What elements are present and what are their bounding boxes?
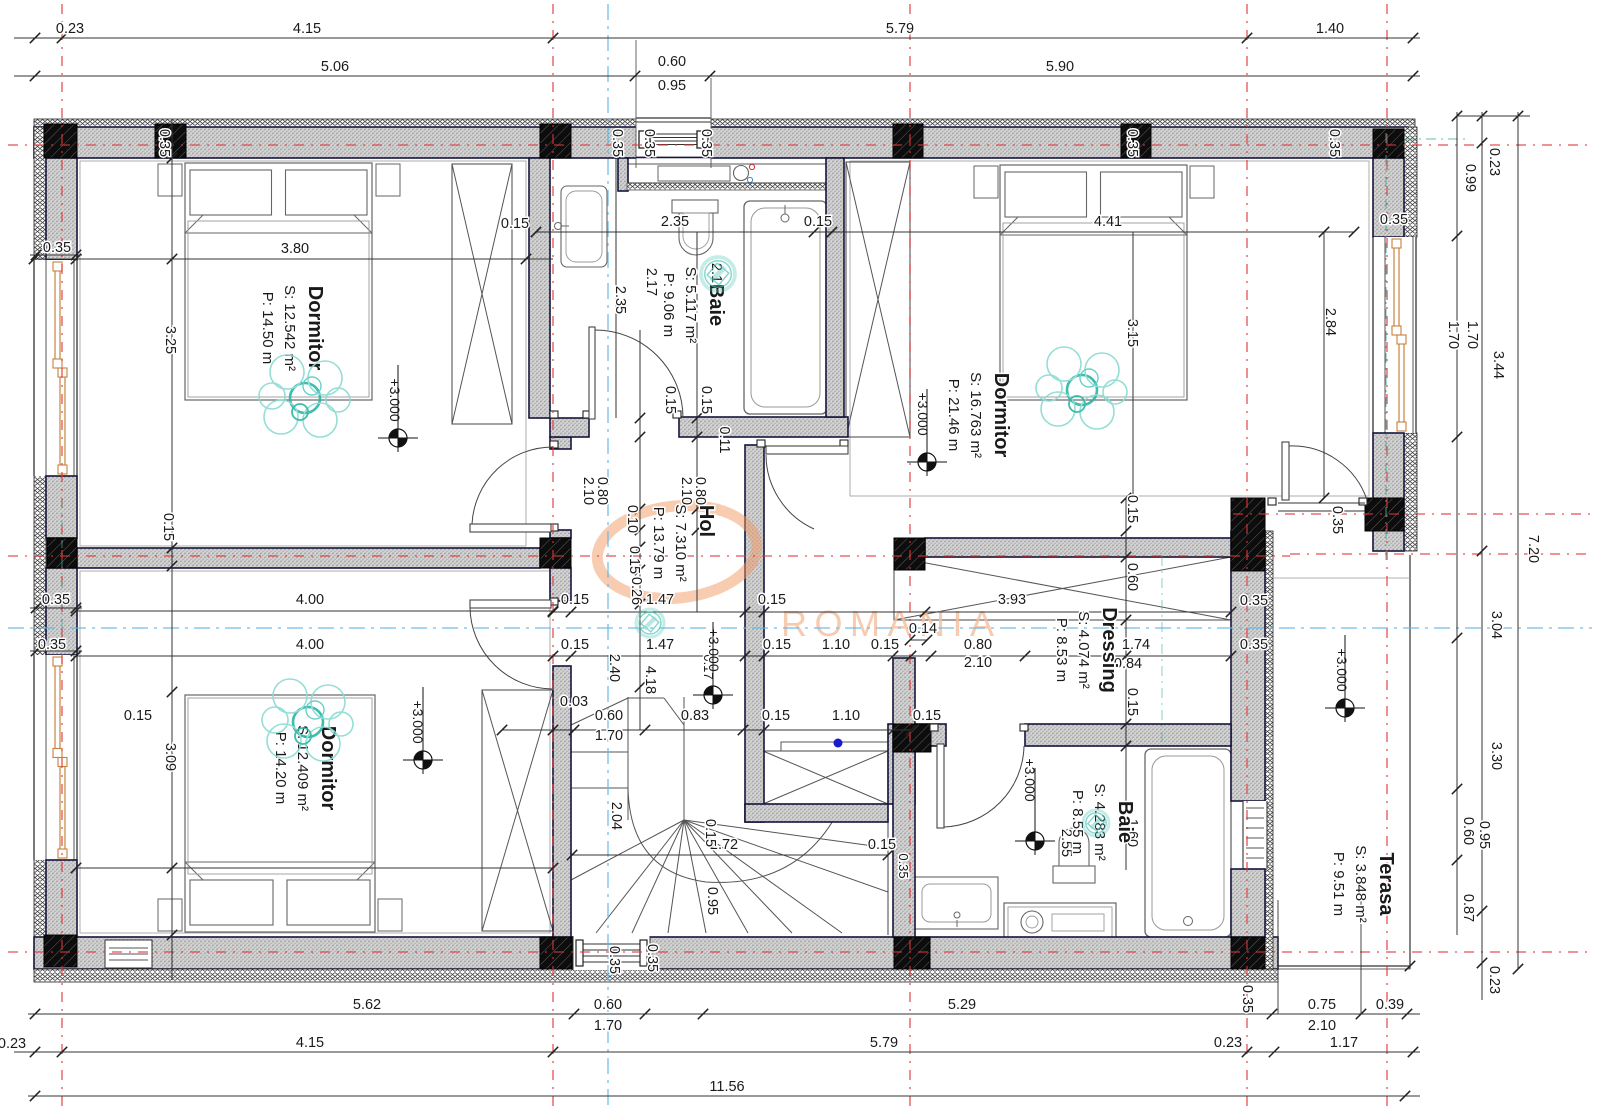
svg-text:5.79: 5.79 bbox=[870, 1035, 898, 1051]
svg-text:0.99: 0.99 bbox=[1462, 164, 1478, 192]
svg-text:5.90: 5.90 bbox=[1046, 59, 1074, 75]
svg-text:S: 4.074 m²: S: 4.074 m² bbox=[1075, 611, 1092, 689]
svg-text:0.35: 0.35 bbox=[644, 944, 660, 972]
svg-text:Baie: Baie bbox=[1114, 801, 1136, 843]
svg-text:0.15: 0.15 bbox=[913, 708, 941, 724]
svg-text:S: 7.310 m²: S: 7.310 m² bbox=[672, 504, 689, 582]
svg-text:0.23: 0.23 bbox=[56, 21, 84, 37]
svg-text:0.60: 0.60 bbox=[1124, 563, 1140, 591]
svg-text:0.39: 0.39 bbox=[1376, 997, 1404, 1013]
svg-text:Dressing: Dressing bbox=[1098, 607, 1120, 693]
svg-text:0.60: 0.60 bbox=[594, 997, 622, 1013]
svg-text:2.10: 2.10 bbox=[580, 477, 596, 505]
svg-text:0.95: 0.95 bbox=[704, 887, 720, 915]
svg-text:0.60: 0.60 bbox=[658, 54, 686, 70]
svg-text:0.35: 0.35 bbox=[609, 129, 625, 157]
svg-text:5.29: 5.29 bbox=[948, 997, 976, 1013]
svg-text:1.70: 1.70 bbox=[595, 728, 623, 744]
svg-text:0.10: 0.10 bbox=[624, 505, 640, 533]
svg-text:0.35: 0.35 bbox=[1240, 637, 1268, 653]
svg-text:P: 21.46 m: P: 21.46 m bbox=[945, 379, 962, 452]
svg-text:0.75: 0.75 bbox=[1308, 997, 1336, 1013]
svg-text:S: 16.763 m²: S: 16.763 m² bbox=[967, 372, 984, 458]
svg-text:P: 14.50 m: P: 14.50 m bbox=[259, 292, 276, 365]
svg-text:0.14: 0.14 bbox=[909, 621, 937, 637]
svg-text:0.80: 0.80 bbox=[964, 637, 992, 653]
svg-text:+3.000: +3.000 bbox=[410, 700, 426, 743]
svg-text:Dormitor: Dormitor bbox=[304, 286, 326, 371]
svg-text:P: 14.20 m: P: 14.20 m bbox=[272, 732, 289, 805]
svg-text:S: 5.117 m²: S: 5.117 m² bbox=[682, 267, 699, 343]
svg-text:4.18: 4.18 bbox=[642, 666, 658, 694]
svg-text:P: 9.06 m: P: 9.06 m bbox=[660, 273, 677, 337]
svg-text:2.35: 2.35 bbox=[612, 286, 628, 314]
svg-text:0.35: 0.35 bbox=[1239, 985, 1255, 1013]
svg-text:0.35: 0.35 bbox=[1326, 129, 1342, 157]
svg-text:0.23: 0.23 bbox=[1486, 148, 1502, 176]
svg-text:S: 3.848 m²: S: 3.848 m² bbox=[1352, 845, 1369, 923]
svg-text:0.15: 0.15 bbox=[124, 708, 152, 724]
svg-text:0.35: 0.35 bbox=[698, 129, 714, 157]
svg-text:0.60: 0.60 bbox=[1460, 817, 1476, 845]
svg-text:3.93: 3.93 bbox=[998, 592, 1026, 608]
svg-text:5.06: 5.06 bbox=[321, 59, 349, 75]
svg-text:Hol: Hol bbox=[695, 505, 717, 537]
svg-text:1.10: 1.10 bbox=[832, 708, 860, 724]
svg-text:0.35: 0.35 bbox=[641, 129, 657, 157]
svg-text:0.35: 0.35 bbox=[606, 946, 622, 974]
svg-text:0.15: 0.15 bbox=[1124, 495, 1140, 523]
svg-text:+3.000: +3.000 bbox=[706, 628, 722, 671]
svg-text:2.10: 2.10 bbox=[964, 655, 992, 671]
svg-text:0.03: 0.03 bbox=[560, 694, 588, 710]
svg-text:0.35: 0.35 bbox=[1329, 506, 1345, 534]
svg-text:0.35: 0.35 bbox=[1380, 212, 1408, 228]
svg-text:0.95: 0.95 bbox=[658, 78, 686, 94]
svg-text:0.35: 0.35 bbox=[1240, 593, 1268, 609]
svg-text:1.47: 1.47 bbox=[646, 592, 674, 608]
svg-text:1.40: 1.40 bbox=[1316, 21, 1344, 37]
svg-text:3.25: 3.25 bbox=[162, 326, 178, 354]
svg-text:0.11: 0.11 bbox=[716, 426, 732, 453]
svg-text:1.10: 1.10 bbox=[822, 637, 850, 653]
svg-text:2.17: 2.17 bbox=[643, 268, 659, 296]
svg-text:0.23: 0.23 bbox=[1486, 966, 1502, 994]
svg-text:0.15: 0.15 bbox=[871, 637, 899, 653]
svg-text:4.00: 4.00 bbox=[296, 637, 324, 653]
svg-text:0.95: 0.95 bbox=[1476, 821, 1492, 849]
svg-text:5.62: 5.62 bbox=[353, 997, 381, 1013]
svg-text:1.17: 1.17 bbox=[1330, 1035, 1358, 1051]
svg-text:0.15: 0.15 bbox=[501, 216, 529, 232]
svg-text:2.10: 2.10 bbox=[678, 477, 694, 505]
svg-text:Dormitor: Dormitor bbox=[317, 726, 339, 811]
svg-text:4.15: 4.15 bbox=[296, 1035, 324, 1051]
svg-text:3.09: 3.09 bbox=[162, 743, 178, 771]
svg-text:4.15: 4.15 bbox=[293, 21, 321, 37]
svg-text:0.35: 0.35 bbox=[1124, 129, 1140, 157]
svg-text:0.83: 0.83 bbox=[681, 708, 709, 724]
svg-text:1.70: 1.70 bbox=[1445, 321, 1461, 349]
svg-text:0.35: 0.35 bbox=[42, 592, 70, 608]
svg-text:0.23: 0.23 bbox=[0, 1036, 26, 1052]
svg-text:5.79: 5.79 bbox=[886, 21, 914, 37]
svg-text:0.15: 0.15 bbox=[662, 386, 678, 414]
svg-text:0.15: 0.15 bbox=[160, 513, 176, 541]
svg-text:3.44: 3.44 bbox=[1490, 351, 1506, 379]
svg-text:P: 13.79 m: P: 13.79 m bbox=[650, 507, 667, 580]
svg-text:+3.000: +3.000 bbox=[915, 392, 931, 435]
svg-text:2.35: 2.35 bbox=[661, 214, 689, 230]
svg-text:Dormitor: Dormitor bbox=[990, 373, 1012, 458]
svg-text:Terasa: Terasa bbox=[1375, 852, 1397, 916]
svg-text:3.30: 3.30 bbox=[1488, 742, 1504, 770]
svg-text:0.15: 0.15 bbox=[758, 592, 786, 608]
svg-text:2.84: 2.84 bbox=[1322, 308, 1338, 336]
svg-text:0.35: 0.35 bbox=[156, 129, 172, 157]
svg-text:0.15: 0.15 bbox=[804, 214, 832, 230]
svg-text:0.26: 0.26 bbox=[628, 577, 644, 605]
svg-text:1.47: 1.47 bbox=[646, 637, 674, 653]
svg-text:P: 9.51 m: P: 9.51 m bbox=[1330, 852, 1347, 916]
svg-text:0.35: 0.35 bbox=[38, 637, 66, 653]
svg-text:0.15: 0.15 bbox=[868, 837, 896, 853]
svg-text:0.87: 0.87 bbox=[1460, 894, 1476, 922]
svg-text:7.20: 7.20 bbox=[1525, 535, 1541, 563]
svg-text:0.15: 0.15 bbox=[561, 637, 589, 653]
svg-text:4.41: 4.41 bbox=[1094, 214, 1122, 230]
svg-text:0.35: 0.35 bbox=[43, 240, 71, 256]
svg-text:P: 8.53 m: P: 8.53 m bbox=[1053, 618, 1070, 682]
svg-text:1.74: 1.74 bbox=[1122, 637, 1150, 653]
svg-text:0.15: 0.15 bbox=[626, 546, 642, 574]
svg-text:2.04: 2.04 bbox=[608, 802, 624, 830]
svg-text:4.00: 4.00 bbox=[296, 592, 324, 608]
svg-text:3.80: 3.80 bbox=[281, 241, 309, 257]
svg-text:11.56: 11.56 bbox=[709, 1079, 744, 1095]
svg-text:3.04: 3.04 bbox=[1488, 611, 1504, 639]
svg-text:0.60: 0.60 bbox=[595, 708, 623, 724]
svg-text:0.15: 0.15 bbox=[762, 708, 790, 724]
svg-text:+3.000: +3.000 bbox=[1334, 648, 1350, 691]
svg-text:+3.000: +3.000 bbox=[1022, 758, 1038, 801]
svg-text:1.70: 1.70 bbox=[594, 1018, 622, 1034]
svg-text:0.15: 0.15 bbox=[702, 819, 718, 847]
svg-text:3.15: 3.15 bbox=[1124, 319, 1140, 347]
svg-text:0.15: 0.15 bbox=[763, 637, 791, 653]
svg-text:2.10: 2.10 bbox=[1308, 1018, 1336, 1034]
svg-text:0.15: 0.15 bbox=[561, 592, 589, 608]
svg-text:0.15: 0.15 bbox=[698, 386, 714, 414]
svg-text:1.70: 1.70 bbox=[1464, 321, 1480, 349]
svg-text:0.23: 0.23 bbox=[1214, 1035, 1242, 1051]
svg-text:2.40: 2.40 bbox=[606, 654, 622, 682]
svg-text:+3.000: +3.000 bbox=[387, 378, 403, 421]
svg-text:0.15: 0.15 bbox=[1124, 688, 1140, 716]
svg-text:0.35: 0.35 bbox=[896, 853, 911, 878]
